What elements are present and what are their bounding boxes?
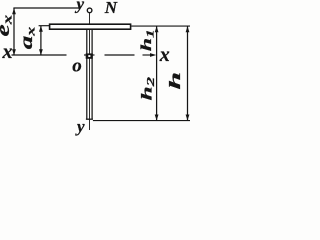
svg-text:h: h [166,72,184,90]
web right line [91,30,93,119]
svg-text:o: o [72,55,82,76]
x axis right arrowhead [150,53,156,57]
dimension line e_x [12,8,16,55]
node o centroid marker [86,53,93,58]
flange of T-section [50,24,131,29]
wire: x axis chain line [12,54,154,56]
wire: right bottom extension line [93,120,190,122]
wire: e_x top extension line to point N [13,7,80,9]
web bottom cap [86,118,93,120]
svg-text:x: x [2,41,13,63]
dimension line h [186,26,190,121]
node N application point circle [87,8,92,13]
dimension line h1 / h2 [155,26,159,121]
svg-text:x: x [159,44,170,66]
wire: right top extension line [131,25,190,27]
wire: a_x top extension line [39,25,50,27]
svg-text:ex: ex [0,15,15,37]
svg-text:y: y [75,0,85,13]
svg-text:N: N [104,0,118,17]
web left line [86,30,88,119]
dimension line a_x [39,26,43,56]
svg-text:y: y [75,117,85,136]
wire: y axis line [89,13,91,130]
